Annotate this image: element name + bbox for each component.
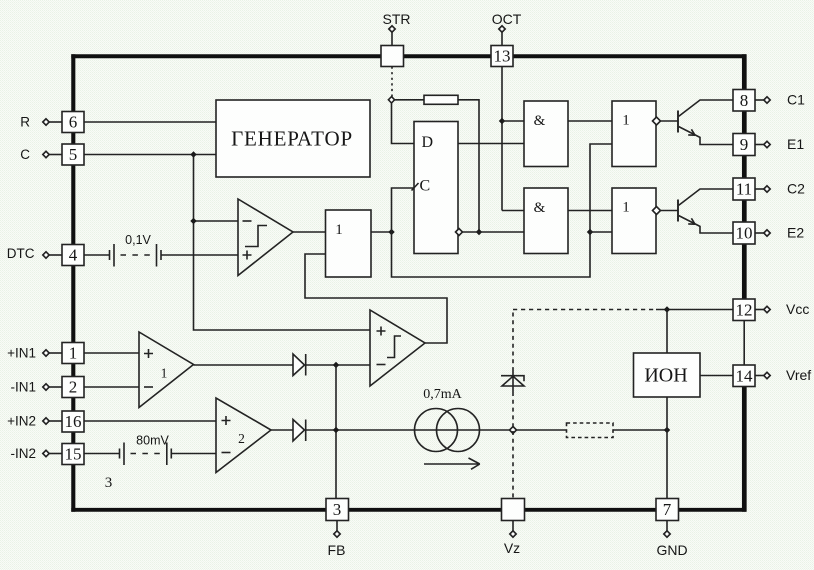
wire Vcc dashed horizontal — [513, 309, 656, 311]
svg-text:DTC: DTC — [7, 246, 35, 261]
zener diode VD3 — [501, 376, 524, 382]
svg-text:16: 16 — [65, 412, 82, 431]
svg-text:Vz: Vz — [504, 540, 520, 556]
pin 15 -IN2 — [62, 444, 84, 465]
wire op-amp2 output — [271, 429, 293, 431]
svg-text:4: 4 — [69, 246, 78, 265]
svg-text:R: R — [20, 115, 30, 130]
wire feedback vertical to pin3 — [335, 365, 337, 499]
svg-text:10: 10 — [736, 224, 753, 243]
op-amp 1 error amplifier — [139, 332, 194, 408]
svg-text:0,7mA: 0,7mA — [423, 387, 462, 402]
wire pin1 to op-amp1 plus — [85, 352, 140, 354]
pin STR square — [381, 46, 404, 67]
wire dashed box to ION vertical — [613, 429, 667, 431]
svg-text:1: 1 — [622, 113, 630, 129]
svg-text:6: 6 — [69, 113, 78, 132]
IC outline bottom border — [71, 508, 746, 512]
comparator DA1 hysteresis symbol — [245, 226, 267, 247]
wire OR2 lower input — [590, 231, 612, 233]
comparator DA1 plus sign — [243, 251, 252, 260]
pin 6 R — [62, 112, 84, 133]
svg-text:Vref: Vref — [786, 367, 811, 383]
svg-text:1: 1 — [69, 344, 78, 363]
wire ION to pin14 Vref — [700, 375, 733, 377]
wire diode VD2 to current source — [306, 429, 567, 431]
current source G2 circles — [415, 409, 458, 452]
svg-text:&: & — [534, 113, 546, 129]
block ION voltage reference box — [634, 353, 701, 397]
gate OR1 box — [612, 101, 656, 167]
pin 14 Vref — [733, 365, 755, 387]
wire STR dashed to node — [391, 67, 393, 97]
comparator DA2 hysteresis symbol — [387, 336, 401, 358]
wire pin5 C to generator — [85, 154, 217, 156]
current source direction arrow — [424, 458, 480, 469]
wire trigger Qbar output to AND2 — [463, 231, 525, 233]
pin 10 E2 — [733, 222, 755, 244]
pin 12 Vcc — [733, 299, 755, 321]
pin 13 OCT — [491, 46, 513, 67]
node Vz crossing open diamond — [510, 427, 517, 434]
svg-text:C2: C2 — [787, 181, 805, 197]
svg-text:Vcc: Vcc — [786, 301, 809, 317]
node OR1 output diamond — [653, 117, 661, 125]
node trigger Qbar output diamond — [456, 229, 463, 236]
clock edge slash — [412, 183, 419, 191]
comparator DA2 minus sign — [377, 364, 386, 366]
svg-text:0,1V: 0,1V — [125, 233, 151, 247]
wire AND2 upper input — [502, 210, 524, 212]
node C ramp junction — [190, 151, 196, 157]
diode VD2 — [293, 420, 305, 442]
node ION ground junction — [664, 427, 670, 433]
svg-text:+IN2: +IN2 — [7, 414, 36, 429]
wire zener solid segment — [512, 368, 514, 392]
svg-text:C: C — [20, 147, 30, 162]
IC outline top border — [71, 54, 746, 58]
svg-text:ИОН: ИОН — [644, 365, 687, 387]
wire pin6 R to generator — [85, 121, 217, 123]
svg-text:STR: STR — [383, 11, 411, 27]
wire deadtime comparator inverting input — [194, 220, 239, 222]
battery GB2 80mV — [120, 443, 172, 466]
svg-text:FB: FB — [328, 542, 346, 558]
op-amp1 plus sign — [144, 349, 153, 358]
pin 8 C1 — [733, 90, 755, 112]
svg-text:2: 2 — [238, 431, 245, 446]
svg-text:14: 14 — [736, 366, 754, 385]
pin 1 +IN1 — [62, 343, 84, 364]
resistor R1 — [424, 95, 458, 104]
wire comparator DA1 output — [293, 231, 326, 233]
pin Vz square — [502, 499, 525, 521]
svg-text:-IN2: -IN2 — [10, 446, 36, 461]
wire trigger Q output to AND1 — [458, 143, 524, 145]
latch G1 box — [326, 210, 372, 277]
wire STR node to trigger D input — [392, 103, 415, 144]
wire ION top to Vcc — [666, 310, 668, 354]
transistor Q1 — [677, 111, 679, 133]
wire pin15 to battery — [85, 453, 120, 455]
battery GB1 0,1V — [110, 244, 162, 267]
gate AND1 box — [524, 101, 568, 167]
svg-text:80mV: 80mV — [136, 434, 169, 448]
node feedback junction upper — [333, 362, 339, 368]
svg-text:E2: E2 — [787, 225, 804, 241]
wire OR2 output to Q2 base — [661, 210, 679, 212]
wire diode VD1 to PWM comparator minus — [306, 364, 370, 366]
dashed component box — [567, 423, 614, 438]
wire ION bottom to pin7 GND — [666, 397, 668, 499]
wire op-amp1 output — [194, 364, 294, 366]
wire OR1 output to Q1 base — [661, 120, 679, 122]
svg-text:1: 1 — [335, 222, 343, 238]
generator box — [216, 100, 370, 177]
wire OCT vertical from pin13 — [501, 67, 503, 211]
node OR2 output diamond — [653, 207, 661, 215]
wire PWM comparator output loop to latch input — [305, 254, 447, 343]
wire AND1 output — [568, 120, 612, 122]
IC outline right border — [742, 54, 747, 512]
node latch output junction — [388, 229, 394, 235]
svg-text:+IN1: +IN1 — [7, 346, 36, 361]
svg-text:C1: C1 — [787, 92, 805, 108]
svg-text:13: 13 — [494, 47, 511, 66]
wire bottom feedback bus — [392, 144, 613, 277]
pin 3 FB — [326, 499, 349, 521]
pin 16 +IN2 — [62, 411, 84, 432]
node bus junction x590 — [587, 229, 593, 235]
svg-text:GND: GND — [656, 542, 687, 558]
wire pin16 to op-amp2 plus — [85, 420, 217, 422]
IC outline left border — [71, 54, 75, 512]
svg-text:1: 1 — [161, 366, 168, 381]
svg-text:15: 15 — [65, 445, 82, 464]
comparator DA2 plus sign — [377, 327, 386, 336]
gate AND2 box — [524, 188, 568, 254]
op-amp1 minus sign — [144, 386, 153, 388]
node resistor feedback junction — [476, 229, 482, 235]
wire AND2 output — [568, 210, 612, 212]
wire pin2 to op-amp1 minus — [85, 386, 140, 388]
svg-text:OCT: OCT — [492, 11, 522, 27]
wire resistor to feedback vertical — [458, 100, 479, 232]
wire Vcc solid to pin12 — [656, 309, 733, 311]
svg-text:7: 7 — [663, 500, 672, 519]
pin 9 E1 — [733, 134, 755, 156]
svg-text:3: 3 — [333, 500, 342, 519]
svg-text:-IN1: -IN1 — [10, 380, 36, 395]
wire thin border segment between pin 12 and pin 14 — [743, 320, 745, 366]
pin 11 C2 — [733, 178, 755, 200]
svg-text:3: 3 — [105, 475, 113, 491]
wire zener dashed down to Vz pin — [512, 392, 514, 499]
diode VD1 — [293, 354, 305, 376]
svg-text:11: 11 — [736, 180, 752, 199]
svg-text:2: 2 — [69, 378, 78, 397]
pin 4 DTC — [62, 245, 84, 266]
svg-text:8: 8 — [740, 91, 749, 110]
svg-text:C: C — [420, 178, 431, 195]
wire zener dashed up to Vcc line — [512, 313, 514, 369]
node OCT junction — [499, 118, 505, 124]
svg-text:&: & — [534, 200, 546, 216]
svg-text:1: 1 — [622, 200, 630, 216]
wire battery to op-amp2 minus — [171, 453, 216, 455]
pin 5 C — [62, 144, 84, 165]
svg-text:ГЕНЕРАТОР: ГЕНЕРАТОР — [231, 127, 353, 151]
wire latch output to trigger C input — [392, 188, 415, 232]
node feedback junction lower — [333, 427, 339, 433]
op-amp DA1 deadtime comparator — [238, 199, 293, 276]
op-amp2 plus sign — [222, 416, 231, 425]
trigger U1 D flip-flop box — [414, 122, 458, 254]
gate OR2 box — [612, 188, 656, 254]
pin 7 GND — [656, 499, 679, 521]
svg-text:9: 9 — [740, 135, 749, 154]
node Vcc ION junction — [664, 306, 670, 312]
wire latch G1 output — [371, 231, 392, 233]
op-amp2 minus sign — [222, 452, 231, 454]
wire ramp vertical from C node down to PWM comparator plus input — [194, 155, 371, 331]
wire battery to deadtime comparator plus input — [161, 254, 238, 256]
comparator DA1 minus sign — [243, 220, 252, 222]
svg-text:E1: E1 — [787, 136, 804, 152]
wire pin4 DTC to battery — [85, 254, 110, 256]
wire STR node to resistor — [395, 99, 425, 101]
svg-text:D: D — [422, 134, 434, 151]
node STR open diamond — [388, 97, 394, 103]
transistor Q2 — [677, 200, 679, 222]
pin 2 -IN1 — [62, 377, 84, 398]
svg-text:5: 5 — [69, 145, 78, 164]
node deadtime comparator input junction — [190, 218, 196, 224]
wire AND1 upper input — [502, 120, 524, 122]
svg-text:12: 12 — [736, 300, 753, 319]
op-amp 2 error amplifier — [216, 398, 271, 473]
op-amp DA2 PWM comparator — [370, 310, 425, 386]
